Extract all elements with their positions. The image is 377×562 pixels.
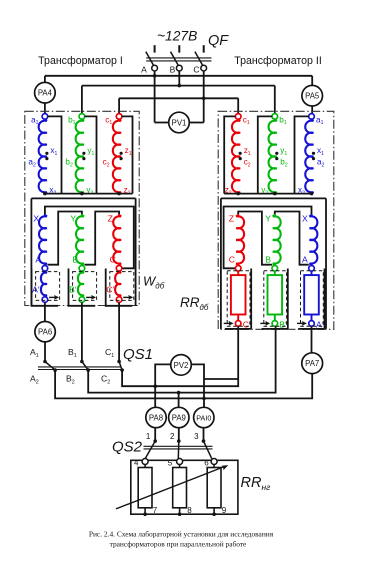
junction y2-I on bottom line (80, 192, 84, 196)
svg-text:A′: A′ (316, 319, 324, 329)
svg-text:B: B (72, 255, 78, 265)
primary winding a1-x2 transformer I (39, 119, 47, 193)
dashed tap box B' I (73, 272, 97, 301)
svg-text:8: 8 (187, 506, 192, 515)
black stub wire b1-II (258, 116, 272, 193)
QS2 linkage bar line2 (144, 448, 213, 450)
QS1 blade at x119.1 (119, 362, 122, 371)
terminal A transformer II (309, 266, 315, 272)
tap dot x1/a2 II (312, 152, 315, 155)
frame bottom A' cell II (298, 328, 324, 330)
tap arrow C' II (224, 322, 231, 324)
wire bus C to c1-I (118, 98, 120, 113)
variable arrow across load resistors (116, 467, 225, 509)
terminal c1 transformer II (235, 114, 241, 120)
ammeter PA6 (35, 322, 55, 342)
secondary winding X-A transformer II (310, 215, 318, 265)
terminal B' transformer I (79, 297, 85, 303)
svg-text:Z: Z (229, 214, 234, 224)
svg-text:PA9: PA9 (172, 414, 186, 423)
junction resistor 7 bottom (143, 512, 147, 516)
wire PA8 to QS2-1 (154, 428, 156, 441)
junction z2-I on bottom line (117, 192, 121, 196)
load resistor 7 (144, 465, 146, 515)
svg-text:C: C (110, 255, 116, 265)
wire PA9 to QS2-2 (178, 428, 180, 441)
wire Z-top to B terminal I (85, 212, 120, 265)
frame around A' cell I (32, 269, 59, 306)
junction resistor 8 bottom (178, 512, 182, 516)
regulating winding B-B' transformer I (78, 271, 84, 296)
wire PA10 to QS2-3 (203, 428, 205, 441)
QS1 lower contact x122.1 (120, 368, 124, 372)
terminal B' transformer II (272, 321, 278, 327)
wire PV2 left (155, 364, 170, 386)
transformer II enclosure dash-dot box (218, 111, 334, 329)
frame around B' cell I (69, 269, 96, 306)
ballast resistor RR_db phase A (311, 271, 313, 275)
svg-text:QF: QF (208, 33, 229, 49)
tap arrow B' I (86, 296, 93, 298)
link PV2-right to C'-II drop (204, 378, 238, 380)
primary winding c1-z2 transformer II (232, 119, 240, 193)
phase B bus (82, 85, 275, 87)
supply terminal dash phase A (154, 45, 156, 52)
wire Z-top to B terminal II (238, 212, 272, 265)
regulating winding A-A' transformer I (41, 271, 47, 296)
QS2 upper contact x155.2 (153, 439, 157, 443)
primary winding b1-y2 transformer I (76, 119, 84, 193)
ballast resistor RR_db phase C (237, 271, 239, 275)
primary winding c1-z2 transformer I (113, 119, 121, 193)
svg-text:PAΙ0: PAΙ0 (196, 414, 211, 423)
QS1 linkage bar line2 (38, 369, 121, 371)
load bank enclosure box (131, 460, 238, 514)
svg-text:PA8: PA8 (149, 414, 163, 423)
terminal a1 transformer I (42, 114, 48, 120)
wire X-top to C terminal II (224, 207, 312, 269)
QS2 lower contact circle 5 (177, 459, 183, 465)
svg-text:QS2: QS2 (112, 439, 143, 456)
svg-text:B: B (170, 64, 176, 74)
supply terminal dash phase C (203, 45, 205, 52)
QF contact circle phase C (201, 65, 207, 71)
wire QF-A down to PV1 left (154, 71, 156, 123)
svg-text:C′: C′ (106, 285, 114, 295)
terminal B transformer I (79, 266, 85, 272)
frame around C' cell I (106, 269, 133, 306)
svg-text:PA7: PA7 (305, 359, 319, 368)
svg-text:трансформаторов при параллельн: трансформаторов при параллельной работе (110, 540, 247, 549)
QS2 lower contact circle 4 (142, 459, 148, 465)
junction z2-II on bottom line (236, 192, 240, 196)
svg-text:PA4: PA4 (38, 89, 53, 98)
QS1 lower contact x55.1 (53, 368, 57, 372)
wire to PV1 left (155, 122, 169, 124)
QS1 lower contact x88.2 (86, 368, 90, 372)
svg-text:PA5: PA5 (305, 92, 320, 101)
terminal B transformer II (272, 266, 278, 272)
QF contact circle phase A (152, 65, 158, 71)
QS1 upper contact x119.1 (117, 360, 121, 364)
wire bus C to c1-II (237, 98, 239, 113)
terminal C transformer I (116, 266, 122, 272)
svg-text:3: 3 (194, 432, 199, 441)
supply terminal dash phase B (178, 45, 180, 52)
QS1 linkage bar line1 (38, 366, 121, 368)
svg-text:Трансформатор I: Трансформатор I (38, 55, 123, 67)
phase C bus (119, 97, 238, 99)
ammeter PA9 (169, 407, 189, 427)
frame right vertical B' cell II (287, 269, 289, 329)
left frame vertical transformer I (30, 198, 32, 305)
dashed box around RR_db B (264, 271, 287, 326)
regulating winding C-C' transformer I (115, 271, 121, 296)
terminal C transformer II (235, 266, 241, 272)
svg-text:A: A (35, 255, 41, 265)
frame right vertical C' cell II (250, 269, 252, 329)
ammeter PA5 (302, 85, 323, 106)
terminal C' transformer I (116, 297, 122, 303)
junction PA9 tap (177, 391, 181, 395)
QF blade phase B (171, 52, 179, 66)
svg-text:Трансформатор II: Трансформатор II (234, 55, 322, 67)
svg-text:A: A (141, 64, 147, 74)
tap dot y1/b2 I (82, 152, 85, 155)
secondary winding X-A transformer I (39, 215, 47, 265)
QS2 blade from x203.5 (204, 441, 212, 459)
svg-text:PV1: PV1 (172, 119, 187, 128)
junction x2-II on bottom line (310, 192, 314, 196)
terminal b1 transformer II (272, 114, 278, 120)
ammeter PA4 (35, 82, 56, 103)
QF linkage bar line2 (146, 60, 211, 62)
wire QF-C down to PV1 right (203, 71, 205, 123)
black stub wire a1-I (48, 116, 62, 193)
wire QF-B down to bus B (178, 71, 180, 86)
svg-text:X: X (302, 214, 308, 224)
wire bus B to b1-I (81, 86, 83, 114)
wire A'-II to PA7 (311, 326, 313, 353)
tap arrow A' II (297, 322, 304, 324)
terminal A transformer I (42, 266, 48, 272)
frame bottom C' cell II (225, 328, 251, 330)
voltmeter PV2 (171, 355, 192, 376)
primary winding b1-y2 transformer II (269, 119, 277, 193)
svg-text:Y: Y (265, 214, 271, 224)
dashed box around RR_db A (301, 271, 324, 326)
svg-text:B: B (265, 255, 271, 265)
QF blade phase C (195, 52, 203, 66)
primary winding a1-x2 transformer II (305, 119, 313, 193)
secondary winding Y-B transformer II (273, 215, 281, 265)
right frame vertical transformer I (135, 198, 137, 305)
terminal A' transformer II (309, 321, 315, 327)
tap arrow A' I (49, 296, 56, 298)
black stub wire c1-II (224, 116, 235, 193)
ammeter PA7 (302, 353, 323, 374)
wire PA6 to QS1 A1 (44, 342, 46, 362)
ammeter PA10 (194, 407, 214, 427)
dashed tap box C' I (110, 272, 134, 301)
junction PA10 tap (202, 397, 206, 401)
svg-text:QS1: QS1 (123, 346, 153, 363)
junction PA8 tap (153, 384, 157, 388)
load resistor 8 (179, 465, 181, 515)
svg-text:X: X (33, 214, 39, 224)
svg-text:2: 2 (170, 432, 175, 441)
dashed tap box A' I (36, 272, 60, 301)
dashed box around RR_db C (227, 271, 250, 326)
wire Y-top to A terminal I (48, 212, 82, 265)
svg-text:B′: B′ (279, 319, 287, 329)
terminal C' transformer II (235, 321, 241, 327)
voltmeter PV1 (169, 112, 190, 133)
secondary top frame line transformer I (31, 197, 135, 199)
primary neutral line transformer I (45, 193, 133, 195)
QS2 upper contact x178.8 (177, 439, 181, 443)
frame right vertical A' cell II (324, 269, 326, 329)
svg-text:Рис. 2.4. Схема лабораторной у: Рис. 2.4. Схема лабораторной установки д… (89, 530, 274, 539)
tap dot z1/c2 I (120, 152, 123, 155)
terminal b1 transformer I (79, 114, 85, 120)
wire PA4 to a1-I (44, 103, 46, 114)
QS2 blade from x178.8 (177, 441, 180, 459)
wire X-top to C terminal I (45, 207, 134, 269)
QF contact circle phase B (176, 65, 182, 71)
svg-text:~127В: ~127В (157, 29, 197, 44)
secondary winding Z-C transformer II (236, 215, 244, 265)
wire A'-I to PA6 (44, 302, 46, 321)
wire to PA10 (203, 398, 205, 407)
svg-text:A: A (302, 255, 308, 265)
QS1 upper contact x81.9 (80, 360, 84, 364)
tie line phase C (QS1-C2 to C'-II) (122, 326, 238, 386)
QS1 blade at x45 (45, 362, 55, 371)
tap dot z1/c2 II (239, 152, 242, 155)
transformer I enclosure dash-dot box (25, 111, 139, 305)
tap dot y1/b2 II (275, 152, 278, 155)
secondary winding Y-B transformer I (76, 215, 84, 265)
wire Y-top to A terminal II (275, 212, 309, 265)
wire PV2 right (191, 364, 204, 398)
secondary winding Z-C transformer I (113, 215, 121, 265)
primary neutral line transformer II (224, 193, 311, 195)
svg-text:7: 7 (153, 506, 158, 515)
phase A bus (45, 75, 312, 77)
terminal a1 transformer II (309, 114, 315, 120)
svg-text:Y: Y (70, 214, 76, 224)
QF blade phase A (146, 52, 154, 66)
frame bottom B' cell II (262, 328, 288, 330)
junction bus A / QF A (153, 74, 157, 78)
wire bus A to PA4 (44, 76, 46, 83)
svg-text:9: 9 (222, 506, 227, 515)
wire C'-I to QS1 C1 (118, 302, 120, 361)
terminal A' transformer I (42, 297, 48, 303)
wire PA5 to a1-II (311, 106, 313, 114)
svg-text:C: C (229, 255, 235, 265)
svg-text:PV2: PV2 (174, 361, 189, 370)
junction bus B / QF B (178, 84, 182, 88)
wire to PA9 (178, 393, 180, 408)
QF linkage bar line1 (146, 57, 211, 59)
QS1 blade at x81.9 (82, 362, 88, 371)
QS1 upper contact x45 (43, 360, 47, 364)
svg-text:C: C (193, 64, 199, 74)
left frame vertical transformer II (220, 198, 222, 329)
black stub wire b1-I (85, 116, 97, 193)
tap arrow C' I (123, 296, 130, 298)
ballast resistor RR_db phase B (274, 271, 276, 275)
junction x2-I on bottom line (43, 192, 47, 196)
wire bus B to b1-II (274, 86, 276, 114)
tap arrow B' II (260, 322, 267, 324)
wire to PA8 (154, 386, 156, 407)
tie line phase A (QS1-A2 to PA7) (55, 370, 312, 398)
wire B'-I to QS1 B1 (81, 302, 83, 361)
svg-text:Z: Z (108, 214, 113, 224)
ammeter PA8 (146, 407, 166, 427)
QS2 lower contact circle 6 (211, 459, 217, 465)
svg-text:PA6: PA6 (38, 328, 52, 337)
wire PV1 right (189, 122, 203, 124)
black stub wire c1-I (122, 116, 133, 193)
right frame vertical transformer II (325, 198, 327, 329)
junction bus C / QF C (202, 97, 206, 101)
black stub wire a1-II (295, 116, 309, 193)
svg-text:1: 1 (146, 432, 151, 441)
QS2 linkage bar line1 (144, 445, 213, 447)
QS2 upper contact x203.5 (202, 439, 206, 443)
wire bus A to PA5 (311, 76, 313, 86)
terminal c1 transformer I (116, 114, 122, 120)
junction resistor 9 bottom (212, 512, 216, 516)
QS2 blade from x155.2 (145, 441, 155, 459)
load resistor 9 (213, 465, 215, 515)
secondary top frame line transformer II (221, 197, 326, 199)
tie line phase B (QS1-B2 to B'-II) (88, 326, 275, 392)
junction y2-II on bottom line (273, 192, 277, 196)
tap dot x1/a2 I (45, 152, 48, 155)
